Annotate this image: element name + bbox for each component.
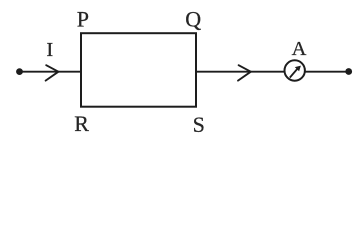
svg-text:Q: Q	[185, 6, 201, 31]
svg-text:I: I	[46, 39, 53, 61]
svg-text:R: R	[74, 111, 89, 136]
svg-text:P: P	[77, 6, 89, 31]
svg-text:S: S	[193, 112, 205, 137]
svg-text:A: A	[292, 38, 307, 60]
